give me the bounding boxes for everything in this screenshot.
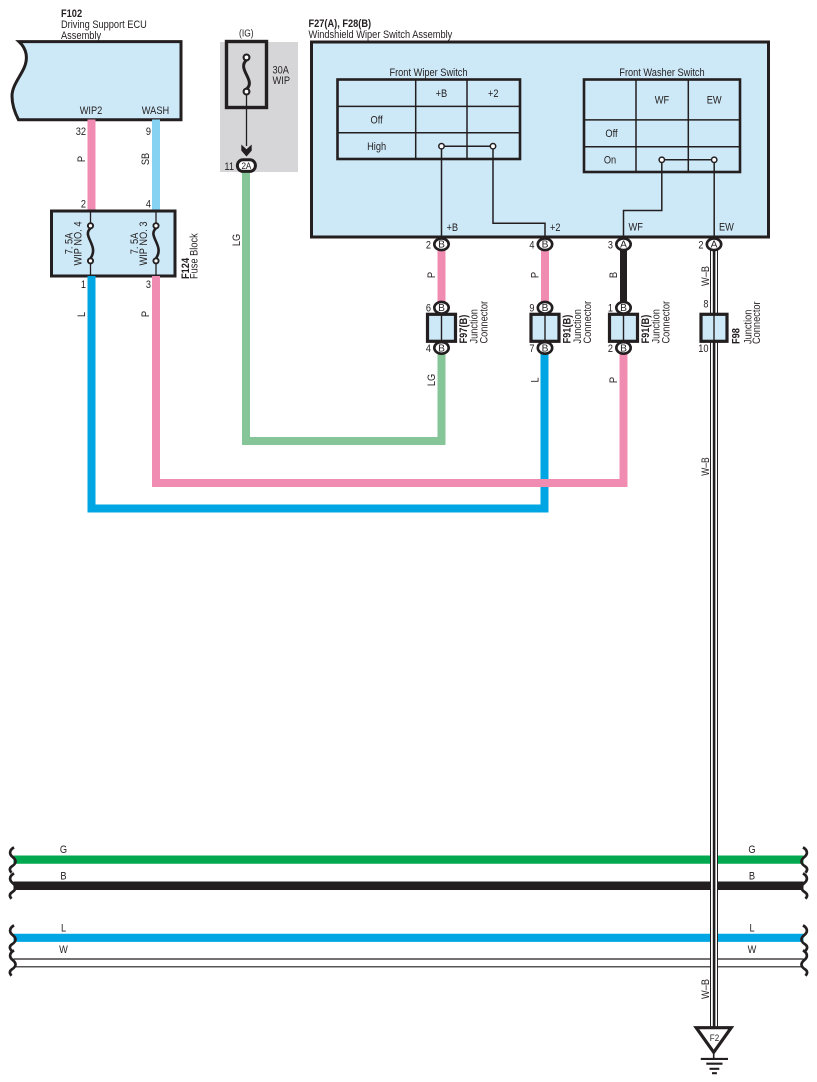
- pin 8 of F98: [703, 299, 708, 311]
- pin 7 terminal B of F91(B): [529, 342, 552, 355]
- svg-text:W–B: W–B: [700, 979, 712, 999]
- wiper switch High contact: [439, 144, 496, 149]
- ground point F2: [696, 1028, 731, 1053]
- svg-text:G: G: [748, 844, 755, 856]
- wire colour label LG (right segment): [426, 374, 438, 386]
- svg-text:WF: WF: [655, 95, 670, 107]
- pin 2 terminal A of F27(A): [698, 239, 721, 252]
- pin 3 of fuse block: [146, 279, 151, 291]
- value label 7.5A WIP NO. 4: [64, 222, 85, 266]
- pin 10 of F98: [698, 343, 708, 355]
- washer switch On contact: [659, 157, 717, 162]
- svg-text:10: 10: [698, 343, 708, 355]
- wire W-B from F27 pin 2(A) through F98 to ground F2: [710, 248, 718, 1028]
- svg-text:B: B: [620, 303, 627, 314]
- svg-text:EW: EW: [719, 222, 734, 234]
- terminal label +2: [550, 222, 561, 234]
- svg-text:+2: +2: [488, 88, 499, 100]
- svg-text:F2: F2: [710, 1033, 719, 1044]
- svg-text:Off: Off: [371, 115, 384, 127]
- pin 4 of fuse block: [146, 199, 151, 211]
- wire colour label P (left segment): [140, 311, 152, 317]
- internal wire EW: [713, 163, 715, 238]
- svg-text:WIP2: WIP2: [80, 105, 103, 117]
- wire P from F102 pin 32 to fuse block pin 2: [88, 120, 96, 213]
- svg-text:32: 32: [76, 126, 86, 138]
- wire P from fuse block pin 3 to junction connector F91(B) pin 2: [156, 276, 624, 483]
- pin 1 of fuse block: [81, 279, 86, 291]
- bus label W right: [748, 944, 757, 956]
- wire from fuse to arrow: [246, 95, 248, 147]
- break symbol left of bus B: [10, 873, 16, 898]
- pin 2 terminal B of F28(B): [426, 239, 449, 252]
- junction connector F98 box: [701, 314, 727, 341]
- svg-text:3: 3: [608, 239, 613, 251]
- svg-text:Front Washer Switch: Front Washer Switch: [619, 67, 704, 79]
- svg-text:Connector: Connector: [751, 301, 763, 344]
- arrow into connector 2A: [241, 145, 251, 157]
- label F27(A), F28(B) Windshield Wiper Switch Assembly: [309, 18, 453, 41]
- svg-text:G: G: [60, 844, 67, 856]
- fuse element 30A WIP: [244, 55, 250, 95]
- junction connector F97(B) box: [428, 314, 456, 341]
- svg-text:L: L: [529, 377, 541, 382]
- svg-text:B: B: [438, 343, 445, 354]
- title Front Wiper Switch: [389, 67, 467, 79]
- svg-text:W: W: [59, 944, 68, 956]
- svg-text:L: L: [61, 923, 66, 935]
- svg-text:2: 2: [81, 199, 86, 211]
- svg-text:WF: WF: [629, 222, 644, 234]
- svg-text:Off: Off: [605, 128, 618, 140]
- pin 3 terminal A of F27(A): [608, 239, 631, 252]
- wire colour label P (+B branch): [426, 272, 438, 278]
- label F97(B) Junction Connector: [458, 301, 491, 344]
- break symbol right of bus L: [801, 925, 807, 950]
- svg-text:B: B: [438, 303, 445, 314]
- title Front Washer Switch: [619, 67, 704, 79]
- label F102 Driving Support ECU Assembly: [61, 8, 147, 42]
- fuse block F124 box: [52, 211, 176, 276]
- fuse 30A WIP box: [227, 42, 267, 108]
- bus label W left: [59, 944, 68, 956]
- label F91(B) Junction Connector (+2 branch): [562, 301, 595, 344]
- svg-text:P: P: [529, 272, 541, 278]
- svg-text:W: W: [748, 944, 757, 956]
- wire P from F27 pin 4(B) to junction connector F91(B) pin 9: [541, 248, 549, 305]
- fuse WIP NO. 4 element: [88, 211, 93, 276]
- svg-text:+B: +B: [436, 88, 448, 100]
- svg-text:B: B: [60, 871, 66, 883]
- label F124 Fuse Block: [180, 233, 201, 279]
- pin 2 terminal B of F91(B) WF branch: [608, 342, 631, 355]
- terminal label +B: [447, 222, 459, 234]
- wire colour label P: [76, 156, 88, 162]
- svg-text:L: L: [76, 312, 88, 317]
- internal wire +2: [493, 149, 545, 237]
- svg-text:P: P: [608, 377, 620, 383]
- label F91(B) Junction Connector (WF branch): [640, 301, 673, 344]
- pin 32 of F102: [76, 126, 86, 138]
- shaded power-supply block (IG): [220, 42, 298, 172]
- bus label L right: [749, 923, 754, 935]
- break symbol left of bus G: [10, 847, 16, 872]
- pin 4 terminal B of F28(B): [529, 239, 552, 252]
- pin 9 of F102: [146, 126, 151, 138]
- wire colour label W-B (lower segment): [700, 979, 712, 999]
- svg-text:WIP NO. 3: WIP NO. 3: [138, 222, 150, 266]
- svg-text:LG: LG: [426, 374, 438, 386]
- svg-text:B: B: [620, 343, 627, 354]
- svg-text:2: 2: [426, 239, 431, 251]
- wire colour label P (right segment): [608, 377, 620, 383]
- switch assembly box F27/F28: [312, 42, 769, 237]
- svg-text:+B: +B: [447, 222, 459, 234]
- break symbol left of bus W: [10, 950, 16, 975]
- terminal label EW: [719, 222, 734, 234]
- svg-text:P: P: [76, 156, 88, 162]
- bus wire W: [14, 958, 804, 967]
- wire SB from F102 pin 9 to fuse block pin 4: [152, 120, 160, 213]
- svg-text:B: B: [542, 303, 549, 314]
- svg-text:9: 9: [146, 126, 151, 138]
- svg-text:P: P: [140, 311, 152, 317]
- internal wire +B: [441, 149, 443, 237]
- svg-text:EW: EW: [707, 95, 722, 107]
- break symbol right of bus G: [801, 847, 807, 872]
- svg-text:1: 1: [608, 303, 613, 315]
- bus wire G: [14, 855, 804, 863]
- terminal label WF: [629, 222, 644, 234]
- wire colour label W-B (upper segment): [700, 266, 712, 286]
- pin 2 of fuse block: [81, 199, 86, 211]
- bus label L left: [61, 923, 66, 935]
- wire colour label LG (left segment): [231, 234, 243, 246]
- junction connector F91(B) box (+2 branch): [531, 314, 559, 341]
- wire colour label B (WF branch): [608, 272, 620, 278]
- svg-text:6: 6: [426, 303, 431, 315]
- pin 6 terminal B of F97(B): [426, 302, 449, 315]
- svg-text:B: B: [608, 272, 620, 278]
- svg-text:Front Wiper Switch: Front Wiper Switch: [389, 67, 467, 79]
- pin 1 terminal B of F91(B) WF branch: [608, 302, 631, 315]
- svg-text:WIP NO. 4: WIP NO. 4: [73, 222, 85, 266]
- wire LG from connector 2A to junction connector F97(B) pin 4: [246, 170, 442, 441]
- value label 30A WIP: [273, 65, 291, 88]
- svg-text:P: P: [426, 272, 438, 278]
- svg-text:Connector: Connector: [582, 301, 594, 344]
- ground symbol: [701, 1052, 728, 1073]
- svg-text:2: 2: [698, 239, 703, 251]
- bus label G right: [748, 844, 755, 856]
- svg-text:B: B: [542, 343, 549, 354]
- junction connector F91(B) box (WF branch): [610, 314, 638, 341]
- svg-text:A: A: [711, 240, 718, 251]
- svg-text:9: 9: [529, 303, 534, 315]
- bus wire L: [14, 934, 804, 942]
- svg-text:Fuse Block: Fuse Block: [189, 233, 201, 279]
- front wiper switch table: [338, 80, 521, 160]
- svg-text:1: 1: [81, 279, 86, 291]
- wire colour label L (left segment): [76, 312, 88, 317]
- wire colour label W-B (middle segment): [700, 457, 712, 475]
- fuse WIP NO. 3 element: [153, 211, 158, 276]
- svg-text:On: On: [604, 155, 616, 167]
- svg-text:2: 2: [608, 343, 613, 355]
- svg-text:4: 4: [146, 199, 151, 211]
- svg-text:WIP: WIP: [273, 75, 291, 87]
- svg-text:+2: +2: [550, 222, 561, 234]
- pin 11: [224, 161, 234, 173]
- svg-text:Connector: Connector: [661, 301, 673, 344]
- break symbol left of bus L: [10, 925, 16, 950]
- pin 9 terminal B of F91(B): [529, 302, 552, 315]
- wire colour label SB: [140, 153, 152, 165]
- break symbol right of bus W: [801, 950, 807, 975]
- pin 4 terminal B of F97(B): [426, 342, 449, 355]
- svg-text:Connector: Connector: [479, 301, 491, 344]
- wire B from F27 pin 3(A) to junction connector F91(B) pin 1: [620, 248, 627, 305]
- wire colour label P (+2 branch): [529, 272, 541, 278]
- svg-text:High: High: [367, 141, 386, 153]
- svg-text:SB: SB: [140, 153, 152, 165]
- svg-text:(IG): (IG): [239, 29, 254, 40]
- svg-text:8: 8: [703, 299, 708, 311]
- wire P from F27 pin 2(B) to junction connector F97(B) pin 6: [438, 248, 446, 305]
- svg-text:LG: LG: [231, 234, 243, 246]
- internal wire WF: [624, 163, 662, 238]
- ECU F102 box: [12, 42, 181, 120]
- break symbol right of bus B: [801, 873, 807, 898]
- svg-text:3: 3: [146, 279, 151, 291]
- svg-text:Windshield Wiper Switch Assemb: Windshield Wiper Switch Assembly: [309, 29, 453, 41]
- svg-text:B: B: [749, 871, 755, 883]
- wire L from fuse block pin 1 to junction connector F91(B) pin 7: [92, 276, 545, 509]
- svg-text:4: 4: [426, 343, 431, 355]
- connector 2A of fuse feed: [237, 160, 255, 172]
- svg-text:4: 4: [529, 239, 534, 251]
- svg-text:L: L: [749, 923, 754, 935]
- svg-text:A: A: [620, 240, 627, 251]
- svg-text:B: B: [438, 240, 445, 251]
- svg-text:F98: F98: [731, 328, 743, 344]
- label (IG): [239, 29, 254, 40]
- bus wire B: [14, 881, 804, 890]
- svg-text:7: 7: [529, 343, 534, 355]
- svg-text:11: 11: [224, 161, 234, 173]
- svg-text:WASH: WASH: [142, 105, 169, 117]
- value label 7.5A WIP NO. 3: [129, 222, 150, 266]
- svg-text:2A: 2A: [241, 161, 251, 172]
- bus label B right: [749, 871, 755, 883]
- wire colour label L (right segment): [529, 377, 541, 382]
- svg-text:W–B: W–B: [700, 266, 712, 286]
- svg-text:B: B: [542, 240, 549, 251]
- front washer switch table: [584, 80, 740, 173]
- label F98 Junction Connector: [731, 301, 764, 344]
- svg-text:W–B: W–B: [700, 457, 712, 475]
- bus label B left: [60, 871, 66, 883]
- bus label G left: [60, 844, 67, 856]
